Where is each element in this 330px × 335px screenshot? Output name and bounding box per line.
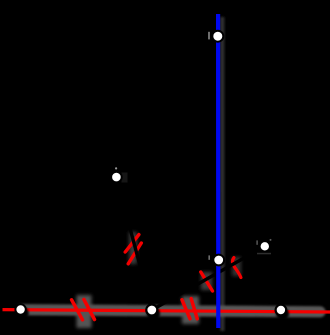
point G shadow (276, 307, 289, 320)
tick pair 1 halo (77, 295, 92, 328)
red line halo (22, 310, 320, 312)
point F (260, 241, 270, 251)
label near point B (122, 173, 128, 183)
segment DF (black) (152, 246, 265, 310)
single tick 1 (201, 272, 213, 291)
single tick 1 halo (201, 272, 212, 290)
blue line (216, 14, 220, 328)
double tick pair 3 stroke a (125, 235, 139, 252)
dot right of F (270, 239, 272, 241)
label near point E (208, 255, 210, 259)
point C shadow (16, 307, 29, 320)
double tick pair 2 stroke a (182, 300, 190, 319)
single tick 2 halo (232, 257, 241, 276)
point C (15, 304, 25, 314)
blue line shadow (220, 17, 225, 331)
tick pair 2 halo (182, 296, 199, 324)
point D shadow (147, 307, 160, 320)
point E (213, 255, 224, 266)
dot above point B (115, 167, 117, 169)
tick pair 3 halo (129, 232, 137, 264)
point G (276, 305, 287, 316)
label near point F (256, 240, 257, 244)
point D (146, 305, 157, 316)
double tick pair 3 stroke b (128, 243, 141, 264)
point B (111, 172, 122, 183)
label near point A (208, 32, 210, 40)
red line (3, 310, 330, 312)
label streak below F (257, 253, 271, 255)
double tick pair 2 stroke b (191, 299, 197, 319)
double tick pair 1 stroke a (72, 300, 83, 320)
segment BD (black) (116, 177, 151, 310)
double tick pair 1 stroke b (84, 300, 95, 320)
single tick 2 (bent) (232, 258, 240, 278)
point A (212, 31, 223, 42)
